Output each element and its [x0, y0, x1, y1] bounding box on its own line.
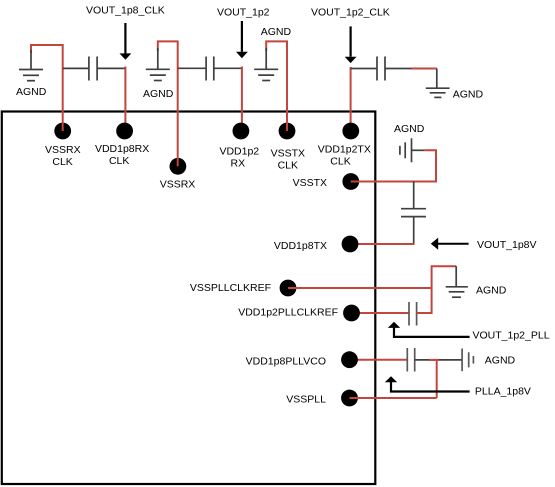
capacitor C2 — [178, 57, 242, 81]
svg-text:VSSTX: VSSTX — [293, 177, 327, 189]
ground AGND5 rotated — [400, 138, 424, 162]
svg-text:VSSRX: VSSRX — [160, 179, 196, 191]
svg-text:CLK: CLK — [330, 156, 350, 168]
wire red AGND1 loop to VSSRX_CLK — [31, 45, 63, 131]
ground AGND4 — [426, 69, 450, 98]
svg-text:RX: RX — [231, 158, 246, 170]
svg-text:CLK: CLK — [52, 156, 72, 168]
arrow VOUT_1p8_CLK — [120, 23, 132, 60]
svg-text:VOUT_1p8V: VOUT_1p8V — [477, 239, 537, 251]
arrow PLLA_1p8V — [385, 376, 470, 391]
svg-text:AGND: AGND — [485, 355, 516, 367]
svg-text:AGND: AGND — [476, 285, 507, 297]
arrow VOUT_1p8V — [431, 238, 469, 250]
svg-text:VDD1p8RX: VDD1p8RX — [95, 143, 149, 155]
svg-text:VOUT_1p2_PLL: VOUT_1p2_PLL — [473, 330, 550, 342]
wire red VSSPLLCLKREF to AGND6 — [288, 266, 456, 288]
wire red junction down to VSSPLL — [436, 360, 438, 398]
capacitor C4 — [351, 57, 412, 81]
svg-text:VDD1p2: VDD1p2 — [219, 146, 259, 158]
ground AGND1 — [19, 50, 43, 81]
wire red stub at junction — [429, 359, 439, 361]
pin VSSPLL — [341, 390, 358, 407]
wire red AGND2 loop to VSSRX — [158, 41, 178, 166]
wire red VDD1p8TX — [350, 243, 415, 245]
svg-text:AGND: AGND — [16, 86, 47, 98]
pin VDD1p8TX — [342, 236, 359, 253]
wire red C4 to AGND4 — [412, 68, 437, 70]
pin VDD1p2_RX — [233, 123, 250, 140]
wire red VOUT_1p2_CLK to VDD1p2TX_CLK — [350, 67, 352, 131]
svg-text:AGND: AGND — [453, 88, 484, 100]
arrow VOUT_1p2_PLL — [388, 322, 470, 337]
wire red AGND3 loop to VSSTX_CLK — [266, 41, 287, 131]
svg-text:AGND: AGND — [261, 26, 292, 38]
ground AGND8 rotated — [462, 349, 473, 372]
wire red VDD1p2PLLCLKREF left lead — [352, 312, 410, 314]
svg-text:CLK: CLK — [109, 155, 129, 167]
svg-text:VOUT_1p8_CLK: VOUT_1p8_CLK — [86, 5, 165, 17]
pin VSSRX — [170, 158, 187, 175]
svg-text:AGND: AGND — [394, 123, 425, 135]
pin VDD1p2PLLCLKREF — [343, 305, 360, 322]
pin VDD1p2TX_CLK — [342, 123, 359, 140]
wire red VOUT_1p2 to VDD1p2_RX — [241, 67, 243, 132]
svg-text:VSSPLL: VSSPLL — [286, 394, 326, 406]
wire C7 right lead to AGND8 — [415, 359, 462, 361]
svg-text:AGND: AGND — [143, 88, 174, 100]
capacitor C1 — [63, 57, 126, 81]
pin VSSTX — [342, 173, 359, 190]
wire red C6 right lead up to VSSPLLCLKREF net — [417, 289, 432, 313]
chip body U1 — [2, 112, 376, 485]
wire red VDD1p8PLLVCO left lead — [350, 359, 408, 361]
svg-text:VSSPLLCLKREF: VSSPLLCLKREF — [190, 282, 271, 294]
svg-text:VDD1p8TX: VDD1p8TX — [274, 240, 327, 252]
svg-text:VDD1p8PLLVCO: VDD1p8PLLVCO — [246, 355, 326, 367]
pin VDD1p8RX_CLK — [116, 123, 133, 140]
svg-text:CLK: CLK — [278, 160, 298, 172]
wire red VSSTX to AGND5 — [351, 150, 436, 181]
svg-text:PLLA_1p8V: PLLA_1p8V — [475, 385, 531, 397]
ground AGND6 — [446, 266, 468, 297]
wire red VSSPLL — [350, 397, 437, 399]
pin VSSRX_CLK — [54, 123, 71, 140]
arrow VOUT_1p2_CLK — [345, 26, 357, 63]
ground AGND3 — [254, 48, 278, 81]
pin VSSPLLCLKREF — [280, 280, 297, 297]
svg-text:VSSRX: VSSRX — [45, 144, 81, 156]
svg-text:VDD1p2PLLCLKREF: VDD1p2PLLCLKREF — [238, 307, 338, 319]
capacitor C5 vertical — [401, 182, 426, 244]
pin VSSTX_CLK — [279, 123, 296, 140]
arrow VOUT_1p2 — [236, 21, 248, 58]
capacitor C6 — [409, 302, 417, 326]
svg-text:VSSTX: VSSTX — [271, 148, 305, 160]
svg-text:VOUT_1p2: VOUT_1p2 — [217, 7, 270, 19]
pin VDD1p8PLLVCO — [341, 351, 358, 368]
svg-text:VOUT_1p2_CLK: VOUT_1p2_CLK — [311, 7, 390, 19]
ground AGND2 — [146, 48, 170, 81]
capacitor C7 — [407, 348, 414, 372]
svg-text:VDD1p2TX: VDD1p2TX — [318, 144, 371, 156]
wire red VOUT_1p8_CLK to VDD1p8RX_CLK — [124, 67, 126, 132]
